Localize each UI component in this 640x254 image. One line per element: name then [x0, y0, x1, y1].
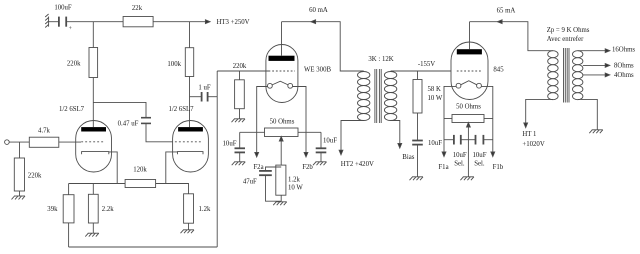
svg-text:0.47 uF: 0.47 uF — [118, 120, 139, 127]
T1 secondary coil — [384, 72, 396, 121]
node 16 Ohms tap — [578, 46, 636, 53]
svg-text:F2a: F2a — [253, 164, 263, 171]
resistor 100k (plate load, triode 2) — [167, 22, 193, 77]
plate bar U1b — [178, 127, 203, 131]
wire cathode bus — [69, 183, 126, 185]
wire — [49, 21, 59, 23]
svg-text:16Ohms: 16Ohms — [612, 46, 635, 53]
svg-text:1/2 6SL7: 1/2 6SL7 — [59, 106, 85, 113]
capacitor 10uF (right filament bypass) — [316, 132, 337, 162]
svg-text:8Ohms: 8Ohms — [614, 63, 634, 70]
node 8 Ohms tap — [583, 63, 634, 70]
svg-text:Zp = 9 K Ohms: Zp = 9 K Ohms — [547, 27, 590, 34]
ground (1.2k) — [181, 230, 195, 233]
svg-text:WE 300B: WE 300B — [304, 66, 331, 73]
svg-text:Sel.: Sel. — [474, 160, 485, 167]
svg-text:10 W: 10 W — [288, 184, 303, 191]
transformer T2 output, Zp = 9 K Ohms — [547, 27, 590, 43]
svg-text:4.7k: 4.7k — [38, 128, 50, 135]
plate bar U1a — [81, 127, 106, 131]
svg-text:220k: 220k — [233, 63, 247, 70]
T1 core — [375, 69, 381, 123]
wire (300B plate lead) — [281, 22, 283, 56]
svg-text:HT3 +250V: HT3 +250V — [217, 19, 250, 26]
svg-text:60 mA: 60 mA — [309, 7, 328, 14]
capacitor 10uF (left filament bypass) — [223, 132, 245, 162]
svg-text:F2b: F2b — [302, 164, 313, 171]
svg-text:10uF: 10uF — [223, 141, 237, 148]
resistor 4.7k (grid stopper) — [29, 128, 59, 148]
wire (845 plate to output transformer, 65 mA) — [470, 8, 553, 51]
wire HT3 bus — [66, 21, 123, 23]
T2 primary coil — [548, 51, 558, 100]
wire (T1 primary bottom to HT2) — [339, 121, 374, 169]
T2 core — [564, 48, 570, 103]
capacitor 10uF (bias filter) — [412, 140, 442, 177]
node HT3 +250V — [205, 19, 249, 26]
capacitor 0.47uF coupling — [93, 102, 173, 141]
cathode U1a — [82, 152, 118, 184]
ground (right 10uF) — [313, 162, 327, 165]
plate bar V2 — [269, 56, 295, 61]
grid U1a (dashed) — [81, 141, 104, 143]
wire (filament F1b drop) — [481, 86, 503, 170]
svg-text:10uF: 10uF — [428, 140, 442, 147]
resistor 120k — [125, 167, 156, 188]
ground (2.2k) — [85, 233, 99, 236]
wire (T2 secondary bottom to ground) — [578, 99, 598, 129]
svg-text:10uF: 10uF — [323, 138, 337, 145]
wire (filament F2a drop) — [253, 87, 267, 171]
svg-text:1.2k: 1.2k — [288, 176, 300, 183]
svg-text:10 W: 10 W — [428, 95, 443, 102]
tube V3 845 envelope — [451, 42, 504, 100]
wire (845 center tap to ground) — [467, 140, 469, 177]
resistor 1.2k 10 W (300B cathode) — [276, 165, 304, 201]
svg-text:100k: 100k — [167, 61, 181, 68]
wire feedback line — [69, 246, 218, 248]
wire (filament F1a drop) — [438, 86, 456, 170]
tube V2 WE 300B envelope — [266, 45, 332, 103]
wire (300B grid) — [217, 70, 269, 72]
svg-text:Sel.: Sel. — [454, 160, 465, 167]
input jack — [5, 140, 10, 145]
ground (input filter cap, left side) — [45, 14, 48, 28]
svg-text:50 Ohms: 50 Ohms — [456, 103, 481, 110]
svg-text:50 Ohms: 50 Ohms — [270, 119, 295, 126]
wire — [153, 21, 205, 23]
T2 secondary coil — [573, 51, 583, 100]
svg-text:+1020V: +1020V — [522, 141, 544, 148]
svg-text:1/2 6SL7: 1/2 6SL7 — [168, 106, 194, 113]
svg-text:47uF: 47uF — [243, 179, 257, 186]
capacitor 10uF Sel. (right) — [468, 135, 492, 167]
wire (T1 secondary top to 845 grid) — [391, 70, 452, 72]
svg-text:39k: 39k — [47, 206, 58, 213]
svg-text:4Ohms: 4Ohms — [614, 72, 634, 79]
cathode U1b — [166, 152, 203, 184]
wire (T2 primary bottom to HT1) — [522, 99, 553, 147]
svg-text:65 mA: 65 mA — [497, 8, 516, 15]
grid V2 (dashed) — [269, 70, 296, 72]
svg-text:Avec entrefer: Avec entrefer — [547, 36, 584, 43]
filament V2 — [268, 81, 293, 88]
wire — [9, 141, 29, 143]
resistor 39k (feedback) — [47, 184, 74, 248]
capacitor 1uF coupling — [190, 85, 218, 102]
plate bar V3 — [457, 49, 482, 54]
wire (300B pot wiper) — [279, 137, 283, 166]
ground (left 10uF) — [232, 162, 246, 165]
wire (plate lead triode 1) — [92, 78, 94, 128]
filament V3 — [456, 81, 481, 88]
svg-text:+: + — [69, 26, 72, 32]
capacitor 10uF Sel. (left) — [444, 135, 468, 167]
grid U1b (dashed) — [175, 141, 202, 143]
wire (grid node vertical, to feedback line) — [216, 71, 218, 247]
wire (T1 secondary bottom to Bias) — [391, 121, 415, 162]
T1 primary coil — [358, 72, 370, 121]
resistor 220k (300B grid leak) — [233, 63, 247, 119]
ground (300B grid leak) — [232, 119, 246, 122]
svg-text:10uF: 10uF — [453, 152, 467, 159]
ground (845 filament center) — [460, 177, 474, 180]
ground (bias filter) — [410, 177, 424, 180]
svg-text:Bias: Bias — [402, 154, 414, 161]
wire — [156, 184, 189, 194]
svg-text:58 K: 58 K — [428, 86, 441, 93]
wire (grid triode 1) — [59, 141, 81, 143]
wire (845 pot wiper) — [467, 123, 471, 140]
svg-text:F1a: F1a — [438, 164, 448, 171]
resistor 22k — [123, 5, 153, 27]
resistor 220k (plate load, triode 1) — [67, 22, 98, 78]
svg-text:845: 845 — [493, 66, 504, 73]
svg-text:22k: 22k — [132, 5, 143, 12]
wire (filament F2b drop) — [293, 87, 314, 171]
node 4 Ohms tap — [583, 72, 634, 79]
svg-text:1.2k: 1.2k — [199, 206, 211, 213]
resistor 220k (input grid leak) — [14, 142, 42, 196]
svg-text:1 uF: 1 uF — [198, 85, 210, 92]
triode U1a 1/2 6SL7 envelope — [59, 106, 112, 172]
potentiometer 50 Ohms (845 hum balance) — [444, 103, 493, 122]
grid V3 (dashed) — [457, 70, 482, 72]
svg-text:220k: 220k — [67, 61, 81, 68]
svg-text:3K : 12K: 3K : 12K — [368, 56, 393, 63]
svg-text:100uF: 100uF — [54, 5, 72, 12]
resistor 58K 10 W (bias feed) — [413, 71, 443, 141]
wire (plate lead triode 2) — [189, 77, 191, 128]
capacitor 47uF (cathode bypass) — [243, 167, 281, 201]
svg-text:HT2 +420V: HT2 +420V — [341, 161, 374, 168]
wire (300B plate to transformer, 60 mA) — [282, 7, 364, 71]
svg-text:220k: 220k — [28, 173, 42, 180]
svg-text:F1b: F1b — [493, 164, 504, 171]
wire (845 plate lead) — [469, 22, 471, 50]
ground (input grid leak) — [12, 196, 26, 199]
ground (T2 secondary) — [589, 130, 603, 133]
potentiometer 50 Ohms (300B hum balance) — [240, 119, 321, 137]
capacitor 100uF input decoupling — [54, 5, 72, 33]
svg-text:120k: 120k — [133, 167, 147, 174]
resistor 1.2k (cathode, triode 2) — [184, 194, 211, 230]
ground (300B cathode) — [273, 202, 287, 205]
svg-text:-155V: -155V — [418, 61, 435, 68]
svg-text:HT 1: HT 1 — [522, 131, 536, 138]
resistor 2.2k (cathode, triode 1) — [88, 184, 114, 234]
triode U1b 1/2 6SL7 envelope — [168, 106, 208, 172]
svg-text:10uF: 10uF — [473, 152, 487, 159]
svg-text:2.2k: 2.2k — [102, 206, 114, 213]
